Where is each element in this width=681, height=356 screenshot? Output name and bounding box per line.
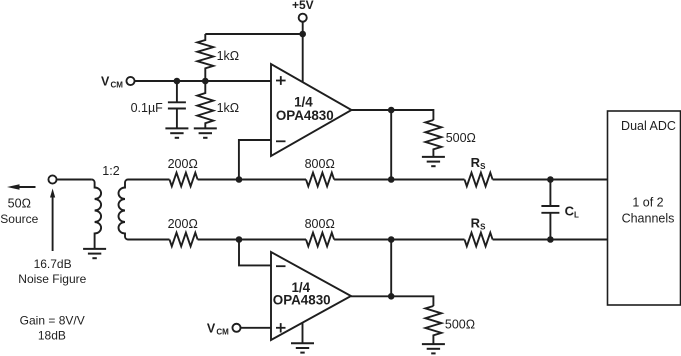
svg-text:800Ω: 800Ω xyxy=(305,217,335,231)
svg-text:Noise Figure: Noise Figure xyxy=(18,272,86,286)
node +5V junction xyxy=(299,31,306,38)
node bottom inverting xyxy=(236,236,243,243)
ground under U2 xyxy=(291,343,314,352)
VCM terminal (top) xyxy=(126,77,134,85)
svg-text:0.1µF: 0.1µF xyxy=(131,101,164,115)
wire U2 output xyxy=(351,296,433,306)
minus symbol U2 xyxy=(276,265,286,267)
resistor 200 upper (horizontal) xyxy=(170,173,198,187)
wire U1 inverting feedback xyxy=(239,140,271,180)
capacitor CL xyxy=(549,180,551,207)
svg-text:1:2: 1:2 xyxy=(102,164,119,178)
svg-text:200Ω: 200Ω xyxy=(168,217,198,231)
ground under 500 lower xyxy=(422,344,445,353)
ground stem U2 xyxy=(302,323,304,344)
wire +5V horizontal to 1k resistor top xyxy=(205,33,302,35)
svg-text:V: V xyxy=(207,321,216,335)
transformer T1 secondary xyxy=(119,180,128,240)
ground under 0.1uF xyxy=(165,128,188,137)
node CL bottom xyxy=(547,236,554,243)
node top inverting xyxy=(236,176,243,183)
svg-text:+5V: +5V xyxy=(292,0,314,12)
resistor 1k upper (vertical) xyxy=(197,34,213,81)
resistor 200 lower (horizontal) xyxy=(170,233,198,247)
plus symbol U1 xyxy=(276,76,286,85)
svg-text:OPA4830: OPA4830 xyxy=(273,293,331,308)
capacitor 0.1uF xyxy=(176,81,178,102)
node CL top xyxy=(547,176,554,183)
svg-text:1kΩ: 1kΩ xyxy=(217,49,240,63)
wire bottom line: RS to ADC xyxy=(493,239,608,241)
resistor 500 upper (vertical) xyxy=(425,120,441,157)
wire bottom inverting input xyxy=(239,240,271,266)
node 1k junction xyxy=(202,78,209,85)
svg-text:CM: CM xyxy=(216,327,229,336)
svg-text:500Ω: 500Ω xyxy=(445,318,475,332)
resistor 800 upper (horizontal) xyxy=(306,173,334,187)
resistor 500 lower (vertical) xyxy=(425,306,441,344)
wire bottom line: 200 to 800 xyxy=(198,239,306,241)
plus symbol U2 xyxy=(276,323,286,332)
wire U1 output xyxy=(352,110,434,120)
wire top line: 200 to 800 xyxy=(198,179,306,181)
svg-text:OPA4830: OPA4830 xyxy=(276,108,334,123)
svg-text:L: L xyxy=(574,211,579,220)
ground under 1k lower xyxy=(194,128,217,137)
svg-text:Gain = 8V/V: Gain = 8V/V xyxy=(20,314,85,328)
VCM terminal (bottom) xyxy=(232,324,240,332)
node U2 output junction xyxy=(388,293,395,300)
wire bottom line: secondary to 200 xyxy=(128,239,170,241)
wire top line: RS to ADC xyxy=(493,179,608,181)
resistor 1k lower (vertical) xyxy=(197,81,213,128)
node U1 output junction xyxy=(388,107,395,114)
svg-text:200Ω: 200Ω xyxy=(168,157,198,171)
arrow pointing left xyxy=(18,186,36,188)
svg-text:S: S xyxy=(480,222,486,231)
wire top line: secondary to 200 xyxy=(128,179,170,181)
resistor 800 lower (horizontal) xyxy=(306,233,334,247)
svg-text:500Ω: 500Ω xyxy=(446,131,476,145)
wire U2 output to bottom line xyxy=(390,240,392,297)
wire +5V vertical to op-amp top edge xyxy=(302,22,304,83)
node bottom output junction xyxy=(388,236,395,243)
node cap junction xyxy=(174,78,181,85)
wire top line: 800 to RS xyxy=(334,179,464,181)
minus symbol U1 xyxy=(276,140,286,142)
svg-text:Channels: Channels xyxy=(622,211,675,225)
svg-text:18dB: 18dB xyxy=(38,329,66,343)
ground under transformer xyxy=(83,249,106,258)
svg-text:1kΩ: 1kΩ xyxy=(217,101,240,115)
resistor RS upper (horizontal) xyxy=(465,173,493,187)
wire bottom line: 800 to RS xyxy=(334,239,464,241)
wire VCM to op-amp + input xyxy=(134,80,271,82)
svg-text:R: R xyxy=(471,155,481,170)
transformer T1 primary xyxy=(92,180,102,249)
svg-text:16.7dB: 16.7dB xyxy=(34,257,72,271)
wire VCM to U2 + input xyxy=(240,327,271,329)
+5V terminal xyxy=(299,14,307,22)
svg-text:R: R xyxy=(471,216,481,231)
svg-text:S: S xyxy=(480,162,486,171)
svg-text:800Ω: 800Ω xyxy=(305,157,335,171)
op-amp U1 (top, 1/4 OPA4830) xyxy=(271,64,352,156)
source terminal xyxy=(48,175,56,183)
svg-text:CM: CM xyxy=(111,81,124,90)
ADC box xyxy=(608,111,681,305)
resistor RS lower (horizontal) xyxy=(465,233,493,247)
op-amp U2 (bottom, 1/4 OPA4830) xyxy=(271,252,351,340)
wire source to transformer xyxy=(56,179,91,181)
svg-text:1 of 2: 1 of 2 xyxy=(632,195,663,209)
arrow pointing up to source xyxy=(52,196,54,251)
svg-text:Dual ADC: Dual ADC xyxy=(621,119,676,133)
svg-text:50Ω: 50Ω xyxy=(8,197,31,211)
svg-text:Source: Source xyxy=(0,212,38,226)
node top output junction xyxy=(388,176,395,183)
wire U1 output to top line xyxy=(390,110,392,180)
ground under 500 upper xyxy=(422,157,445,166)
svg-text:V: V xyxy=(101,75,110,89)
